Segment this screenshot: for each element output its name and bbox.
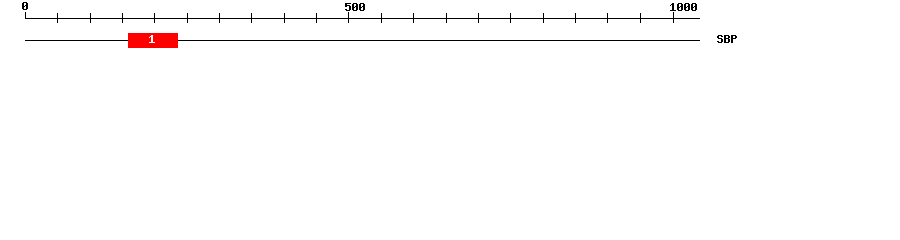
ruler label 500 <box>345 3 365 11</box>
ruler minor ticks 50..450 <box>57 13 317 23</box>
ruler major tick 500 <box>348 12 349 23</box>
ruler label 1000 <box>670 3 697 11</box>
ruler label 0 <box>22 2 28 10</box>
ruler baseline 0..1000 <box>25 18 700 19</box>
feature label 1 <box>149 35 155 43</box>
feature track line <box>25 40 700 41</box>
ruler minor ticks 550..950 <box>381 13 641 23</box>
track name SBP <box>717 35 737 43</box>
feature box (red) <box>128 33 178 48</box>
ruler major tick 0 <box>25 12 26 19</box>
ruler major tick 1000 <box>673 12 674 23</box>
